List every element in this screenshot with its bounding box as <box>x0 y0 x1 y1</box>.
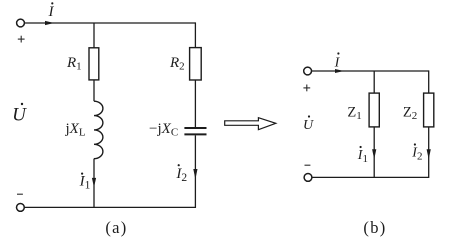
wire branch1 top (b) <box>373 71 375 93</box>
current arrow I (a) <box>45 21 54 25</box>
label minus (b) <box>305 164 311 166</box>
equivalence arrow <box>225 118 276 130</box>
label U (a) <box>12 103 27 126</box>
capacitor -jXC <box>184 128 206 134</box>
wire branch2 top (a) <box>194 22 196 47</box>
svg-text:(b): (b) <box>363 218 386 237</box>
wire bottom (b) <box>312 176 429 178</box>
terminal bottom-left (b) <box>304 174 312 182</box>
svg-text:(a): (a) <box>105 218 127 237</box>
terminal top-left (a) <box>17 19 25 27</box>
wire Z1 to bottom (b) <box>373 127 375 177</box>
svg-text:I1: I1 <box>79 174 91 192</box>
inductor jXL <box>94 101 103 158</box>
svg-text:Z1: Z1 <box>347 105 361 123</box>
svg-text:−jXC: −jXC <box>149 121 178 139</box>
wire top (a) <box>25 22 196 24</box>
impedance Z1 <box>369 93 379 127</box>
svg-text:R2: R2 <box>169 55 185 73</box>
wire bottom (a) <box>25 206 197 208</box>
wire Z2 to bottom (b) <box>428 127 430 178</box>
svg-text:I: I <box>48 4 55 20</box>
svg-text:jXL: jXL <box>65 121 86 139</box>
wire top (b) <box>312 70 429 72</box>
wire capacitor to bottom (a) <box>194 135 196 208</box>
svg-text:I1: I1 <box>357 148 368 165</box>
svg-text:U: U <box>303 118 314 133</box>
resistor R2 <box>190 48 202 80</box>
label minus (a) <box>17 193 23 195</box>
label I (a) <box>48 2 55 20</box>
current arrow I2 (a) <box>193 169 197 179</box>
wire branch1 top (a) <box>93 23 95 48</box>
wire branch2 top (b) <box>428 70 430 93</box>
terminal top-left (b) <box>304 67 312 75</box>
resistor R1 <box>89 48 99 80</box>
wire R1 to coil <box>93 80 95 101</box>
svg-text:U: U <box>12 105 27 126</box>
wire coil to bottom (a) <box>93 159 95 208</box>
label I2 (b) <box>411 143 422 162</box>
label I1 (b) <box>357 146 368 165</box>
label I (b) <box>334 52 341 70</box>
label I1 (a) <box>79 173 91 192</box>
svg-text:R1: R1 <box>66 55 82 73</box>
current arrow I1 (a) <box>92 178 96 188</box>
svg-text:I2: I2 <box>175 166 187 184</box>
current arrow I2 (b) <box>427 149 431 159</box>
terminal bottom-left (a) <box>17 204 25 212</box>
svg-text:Z2: Z2 <box>403 105 417 123</box>
label U (b) <box>303 115 314 133</box>
label + (b) <box>303 85 310 92</box>
wire R2 to capacitor <box>194 80 196 127</box>
svg-text:I: I <box>334 55 341 70</box>
label I2 (a) <box>175 164 187 184</box>
impedance Z2 <box>424 93 434 127</box>
svg-text:I2: I2 <box>411 145 422 162</box>
current arrow I1 (b) <box>372 149 376 159</box>
current arrow I (b) <box>335 69 344 73</box>
label + (a) <box>18 36 25 43</box>
